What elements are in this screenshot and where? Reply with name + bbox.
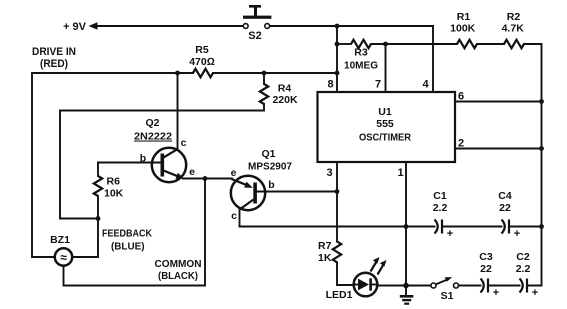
buzzer BZ1 — [50, 234, 72, 266]
svg-text:4: 4 — [422, 79, 429, 91]
wire Q1 collector route — [240, 209, 407, 227]
wire pin 2 — [455, 138, 542, 150]
svg-text:22: 22 — [480, 263, 492, 275]
svg-text:FEEDBACK: FEEDBACK — [102, 228, 152, 240]
svg-text:2.2: 2.2 — [516, 263, 531, 275]
svg-text:R2: R2 — [507, 11, 521, 23]
wire R4 bottom route to feedback node — [60, 104, 264, 219]
svg-text:≈: ≈ — [60, 251, 67, 265]
junction Q1 base / pin 3 — [335, 189, 340, 194]
wire C2 to right rail — [527, 285, 542, 287]
wire +9V rail to S2 — [96, 25, 243, 27]
node COMMON (BLACK) label — [155, 258, 202, 282]
svg-text:S2: S2 — [248, 30, 261, 42]
svg-text:220K: 220K — [272, 94, 298, 106]
svg-text:10K: 10K — [104, 188, 124, 200]
junction drive-in / Q2 collector — [175, 71, 180, 76]
svg-text:6: 6 — [458, 91, 464, 103]
junction cap row / right rail — [539, 224, 544, 229]
resistor R4 220K — [260, 73, 298, 106]
wire C4 to right rail — [509, 226, 542, 228]
wire Q2 collector drop — [177, 73, 179, 149]
svg-text:7: 7 — [375, 79, 381, 91]
svg-text:2N2222: 2N2222 — [134, 131, 172, 143]
svg-text:+: + — [493, 287, 499, 299]
junction drive-in / R4 — [262, 71, 267, 76]
svg-text:555: 555 — [376, 118, 394, 130]
junction pin 6 / rail — [539, 99, 544, 104]
svg-text:3: 3 — [326, 167, 332, 179]
wire R3 left lead — [337, 43, 351, 45]
junction R3 left — [335, 42, 340, 47]
svg-text:R6: R6 — [107, 176, 121, 188]
svg-text:2.2: 2.2 — [433, 202, 448, 214]
wire pin 7 drop — [385, 44, 387, 92]
wire S1 left lead — [406, 285, 431, 287]
svg-text:OSC/TIMER: OSC/TIMER — [359, 132, 411, 144]
switch S1 — [431, 277, 459, 302]
transistor Q1 MPS2907 — [231, 148, 293, 222]
svg-text:R5: R5 — [195, 44, 209, 56]
junction cap row / pin 1 — [404, 224, 409, 229]
wire C1 to C4 — [442, 226, 502, 228]
junction ground node — [403, 283, 409, 289]
svg-text:c: c — [231, 210, 237, 222]
node +9V — [63, 21, 97, 33]
junction pin 2 / rail — [539, 146, 544, 151]
svg-text:10MEG: 10MEG — [344, 60, 378, 72]
wire pin 3 drop — [336, 162, 338, 242]
svg-text:b: b — [140, 153, 146, 165]
wire R2 to right rail — [524, 43, 542, 45]
svg-text:100K: 100K — [450, 23, 476, 35]
svg-text:+: + — [514, 228, 520, 240]
svg-text:(BLACK): (BLACK) — [158, 270, 198, 282]
svg-text:+: + — [532, 287, 538, 299]
wire cap row C1 left lead — [406, 226, 435, 228]
pushbutton switch S2 — [243, 5, 271, 42]
wire common return (buzzer to Q2 emitter node) — [64, 179, 206, 286]
ground — [400, 295, 414, 305]
svg-text:LED1: LED1 — [326, 289, 353, 301]
svg-text:C4: C4 — [498, 190, 512, 202]
svg-text:8: 8 — [327, 79, 333, 91]
svg-text:BZ1: BZ1 — [50, 234, 70, 246]
wire pin 4 drop — [432, 26, 434, 92]
resistor R7 1K — [318, 240, 341, 264]
svg-text:(BLUE): (BLUE) — [111, 241, 145, 253]
svg-text:C2: C2 — [516, 251, 530, 263]
wire R5 to pin 8 — [213, 72, 337, 74]
wire C3 to C2 — [488, 285, 520, 287]
svg-text:4.7K: 4.7K — [502, 23, 525, 35]
svg-text:(RED): (RED) — [40, 58, 68, 70]
svg-text:c: c — [181, 137, 187, 149]
wire R3 to R1 — [371, 43, 457, 45]
svg-text:Q2: Q2 — [145, 117, 159, 129]
svg-text:1: 1 — [397, 167, 403, 179]
svg-text:R4: R4 — [278, 83, 292, 95]
svg-text:22: 22 — [499, 202, 511, 214]
resistor R1 100K — [450, 11, 477, 48]
svg-text:1K: 1K — [318, 252, 332, 264]
resistor R5 470ohm — [189, 44, 215, 77]
svg-text:DRIVE IN: DRIVE IN — [32, 46, 76, 58]
capacitor C2 2.2 — [516, 251, 539, 299]
svg-text:R7: R7 — [318, 240, 332, 252]
wire S1 to C3 — [459, 285, 481, 287]
junction common node at Q2 emitter — [203, 176, 208, 181]
wire S2 to pin-4 corner — [270, 25, 433, 27]
svg-text:S1: S1 — [441, 290, 454, 302]
wire LED cathode to ground node — [377, 285, 406, 287]
transistor Q2 2N2222 — [134, 117, 195, 182]
capacitor C3 22 — [479, 251, 499, 299]
svg-text:b: b — [268, 179, 274, 191]
wire Q2 base — [98, 162, 160, 164]
svg-text:Q1: Q1 — [261, 148, 275, 160]
resistor R6 10K — [94, 163, 124, 219]
junction drive-in / pin 8 — [335, 71, 340, 76]
node DRIVE IN label — [32, 46, 76, 70]
svg-text:e: e — [231, 167, 237, 179]
junction feedback node — [96, 216, 101, 221]
wire left drop to buzzer — [32, 73, 55, 257]
junction top rail / pin 8 — [335, 24, 340, 29]
IC U1 555 OSC/TIMER — [318, 79, 456, 180]
wire right rail — [541, 44, 543, 286]
wire R1 to R2 — [477, 43, 504, 45]
wire drive-in row left — [32, 72, 193, 74]
wire pin 8 drop — [336, 26, 338, 92]
svg-text:+: + — [447, 228, 453, 240]
node FEEDBACK (BLUE) label — [102, 228, 152, 253]
svg-text:2: 2 — [458, 138, 464, 150]
svg-text:C1: C1 — [433, 190, 447, 202]
capacitor C1 2.2 — [433, 190, 454, 240]
svg-text:U1: U1 — [378, 106, 392, 118]
svg-text:+ 9V: + 9V — [63, 21, 87, 33]
junction R3 right / pin 7 — [383, 42, 388, 47]
svg-text:MPS2907: MPS2907 — [248, 161, 292, 173]
svg-text:470Ω: 470Ω — [189, 56, 215, 68]
svg-text:COMMON: COMMON — [155, 258, 202, 270]
resistor R3 10MEG — [344, 40, 378, 72]
wire buzzer positive lead — [73, 219, 99, 258]
resistor R2 4.7K — [502, 11, 525, 48]
wire pin 6 — [455, 91, 542, 103]
capacitor C4 22 — [498, 190, 520, 240]
svg-text:R1: R1 — [457, 11, 471, 23]
svg-text:e: e — [189, 166, 195, 178]
wire R7 to LED1 — [337, 262, 354, 285]
wire Q2 emitter to Q1 emitter — [183, 178, 232, 180]
LED LED1 — [326, 257, 387, 301]
wire Q1 base to pin 3 — [257, 191, 337, 193]
svg-text:C3: C3 — [479, 251, 493, 263]
wire pin 1 drop — [405, 162, 407, 295]
svg-text:R3: R3 — [354, 47, 368, 59]
